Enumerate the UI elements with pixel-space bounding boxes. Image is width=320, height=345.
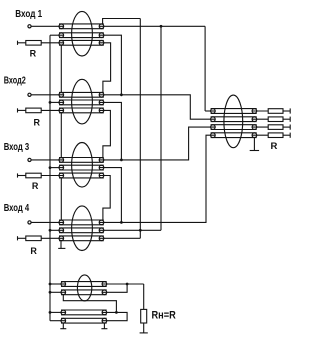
wire T3 row2 stub: [50, 167, 64, 169]
resistor R4: [18, 236, 64, 241]
junction bus-T6b: [49, 291, 52, 294]
transformer T6 winding lines: [61, 282, 107, 324]
transformer T5 winding lines: [211, 109, 257, 138]
output resistor R4o: [252, 133, 290, 138]
wire T1-out row1 drop: [204, 26, 206, 111]
wire T2 row2 stub: [50, 101, 64, 103]
svg-text:R: R: [271, 141, 278, 152]
wire chain T1-T2 left: [60, 45, 62, 92]
wire T2 row3 jog: [99, 110, 110, 157]
wire T4 row3 right: [99, 237, 140, 239]
junction bus-T6c: [49, 311, 52, 314]
wire T1 row2 right: [99, 35, 121, 95]
junction bus-T6a: [49, 283, 52, 286]
wire T6 link left: [63, 295, 116, 313]
junction T6 row1: [126, 283, 129, 286]
svg-text:R: R: [30, 246, 37, 256]
junction busC-T2row1: [120, 93, 123, 96]
junction bus-T3: [49, 166, 52, 169]
ground T4: [58, 241, 65, 249]
transformer T2 winding lines: [59, 92, 104, 112]
wire T6 left feed 4: [50, 320, 66, 322]
ground load: [140, 332, 148, 334]
transformer T4 winding loops: [59, 220, 104, 241]
transformer T3 core: [72, 143, 93, 188]
wire T1 row1 main: [99, 25, 205, 27]
junction busD-T3row1: [120, 159, 123, 162]
wire T4 row1 main: [99, 135, 215, 222]
load resistor Rn: [141, 309, 147, 323]
wire T1 row3 jog: [99, 43, 110, 93]
wire load drop: [143, 284, 145, 309]
transformer T4 winding lines: [59, 220, 104, 241]
transformer T4 core: [72, 206, 93, 251]
transformer T3 winding loops: [59, 158, 104, 178]
svg-text:R: R: [34, 118, 41, 128]
svg-text:Вход 4: Вход 4: [4, 202, 30, 214]
wire T1 row2 stub: [50, 34, 64, 36]
resistor R3: [18, 173, 64, 178]
wire T3 row1 main: [99, 127, 215, 160]
wire T4 row2 right: [99, 229, 161, 231]
svg-text:Вход2: Вход2: [4, 74, 26, 86]
wire T2 row1 main: [99, 95, 215, 119]
transformer T1 winding lines: [59, 24, 104, 45]
transformer T1 winding loops: [59, 24, 104, 45]
input terminal Вход 1: [28, 25, 64, 28]
wire T1 row1 top: [103, 19, 141, 25]
wire T2 row2 right: [99, 102, 121, 159]
wire bus A (x140): [139, 19, 141, 239]
wire out row1 feed: [205, 110, 215, 112]
transformer T5 winding loops: [211, 109, 257, 138]
svg-text:R: R: [32, 181, 39, 191]
ground T6 right: [101, 323, 107, 329]
wire chain T3-T4 left: [60, 178, 62, 220]
wire left bus: [49, 35, 51, 321]
resistor R2: [18, 108, 64, 113]
junction busE-T4row1: [120, 221, 123, 224]
junction T6 link: [115, 311, 118, 314]
svg-text:Rн=R: Rн=R: [152, 309, 176, 321]
junction bus-T4: [49, 229, 52, 232]
input terminal Вход 4: [28, 221, 64, 224]
wire load bottom: [143, 323, 145, 333]
junction busA-T4row2: [139, 229, 142, 232]
output resistor R1o: [252, 108, 290, 113]
resistor R1: [18, 41, 64, 46]
wire chain T2-T3 left: [60, 113, 62, 158]
wire T6 left feed 3: [50, 311, 66, 313]
wire T4 row2 stub: [50, 229, 64, 231]
output resistor R3o: [252, 125, 290, 130]
input terminal Вход 2: [28, 93, 64, 96]
transformer T3 winding lines: [59, 158, 104, 178]
transformer T6 core: [77, 275, 91, 301]
svg-text:Вход 1: Вход 1: [15, 8, 42, 20]
transformer T6 winding loops: [61, 282, 107, 323]
svg-text:Вход 3: Вход 3: [4, 141, 30, 153]
output resistor R2o: [252, 117, 290, 122]
ground output: [250, 138, 259, 151]
wire T6 row3-row4 join: [102, 312, 127, 320]
wire bus B (x160): [160, 26, 162, 230]
wire T6 row1 to load: [102, 283, 144, 285]
transformer T5 core: [224, 95, 243, 148]
transformer T2 winding loops: [59, 93, 104, 113]
input terminal Вход 3: [28, 158, 64, 161]
transformer T1 core: [72, 11, 93, 56]
junction bus-T2: [49, 101, 52, 104]
svg-text:R: R: [30, 49, 37, 59]
wire T3 row3 jog: [99, 176, 110, 221]
junction T1row1-busB: [160, 25, 163, 28]
wire T6 left feed 2: [50, 291, 66, 293]
wire T3 row2 right: [99, 168, 121, 223]
wire T6 left feed 1: [50, 283, 66, 285]
ground T6 left: [60, 323, 66, 329]
transformer T2 core: [72, 79, 93, 124]
wire T6 row1-row2 join: [102, 284, 127, 292]
